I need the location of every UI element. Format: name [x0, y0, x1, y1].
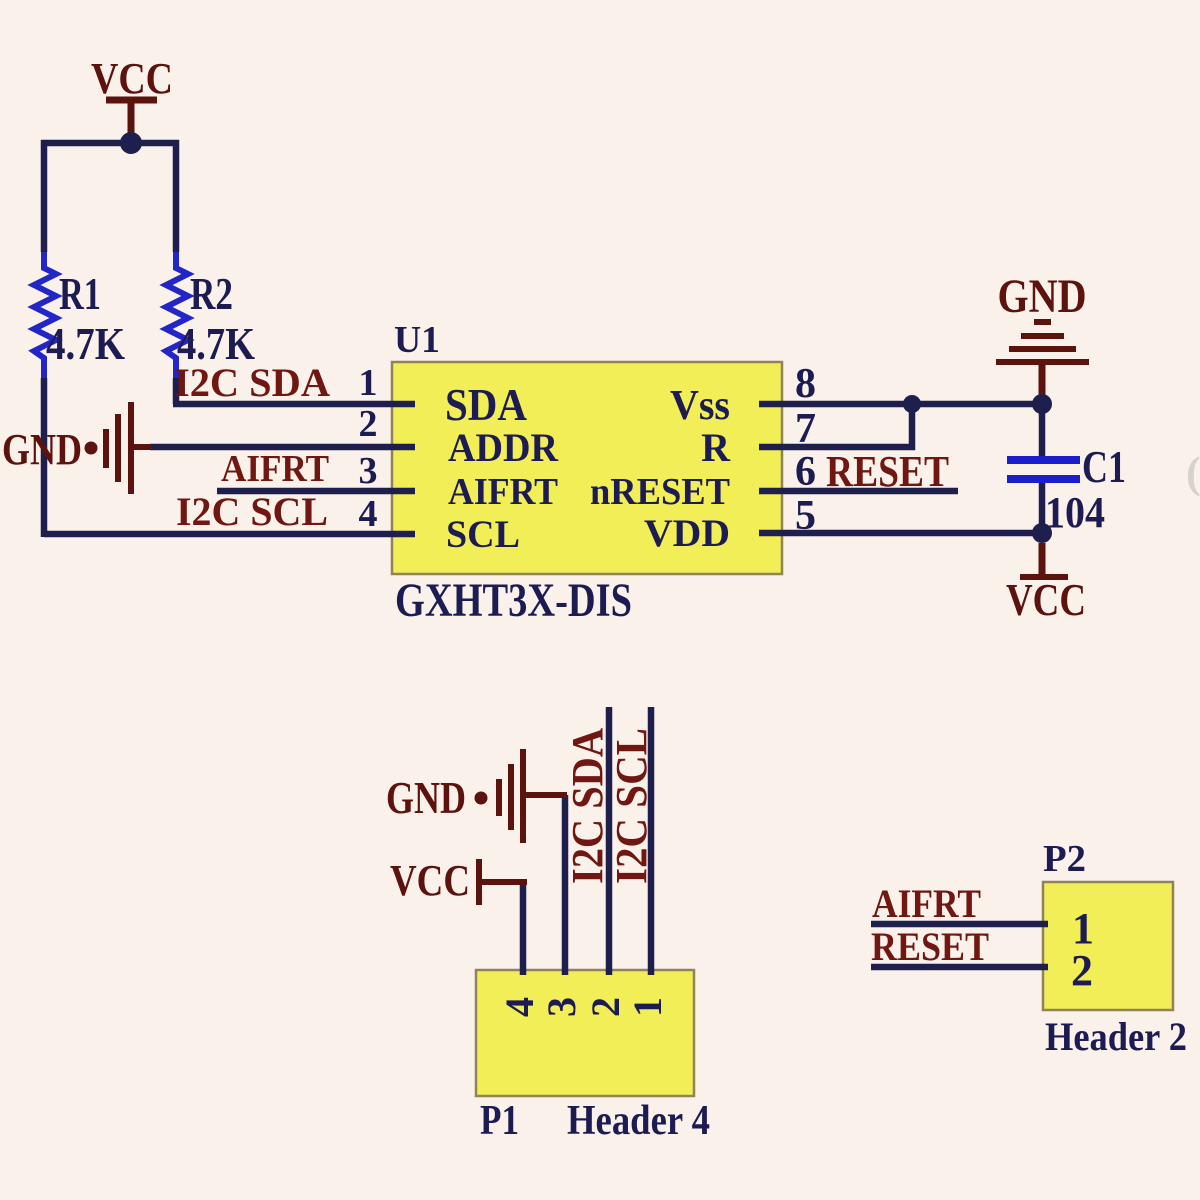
ground GND P1 dot — [475, 792, 488, 805]
IC U1 body — [392, 362, 782, 574]
svg-text:5: 5 — [795, 493, 816, 539]
svg-text:3: 3 — [359, 450, 378, 492]
wire C1 top lead — [1039, 404, 1046, 456]
ground GND left dot — [85, 442, 98, 455]
svg-text:U1: U1 — [394, 319, 440, 361]
power VCC symbol at P1 — [476, 859, 482, 905]
wire GND to pin 2 ADDR — [150, 444, 415, 451]
wire RESET to P2 pin 2 — [871, 964, 1048, 971]
svg-text:VCC: VCC — [390, 856, 470, 905]
wire left vertical lower (R1 bottom lead to SCL net) — [41, 378, 48, 537]
svg-text:1: 1 — [359, 362, 378, 404]
wire R2 top lead — [173, 140, 180, 252]
svg-text:3: 3 — [539, 997, 584, 1017]
capacitor C1 plates — [1007, 460, 1080, 479]
wire P1 pin 4 vertical — [520, 882, 527, 975]
svg-text:VDD: VDD — [644, 512, 730, 555]
svg-text:I2C SCL: I2C SCL — [176, 489, 328, 534]
wire VCC bus top horizontal — [41, 140, 179, 147]
svg-text:4.7K: 4.7K — [46, 318, 125, 369]
node VCC bus junction — [120, 132, 142, 154]
svg-text:C1: C1 — [1082, 441, 1126, 492]
svg-text:4: 4 — [359, 493, 378, 535]
svg-text:GND: GND — [386, 772, 466, 823]
header P1 body — [476, 970, 694, 1096]
svg-text:VCC: VCC — [1006, 574, 1086, 625]
wire R2 bottom lead — [173, 378, 180, 404]
svg-text:R2: R2 — [190, 268, 233, 319]
svg-text:4.7K: 4.7K — [177, 318, 255, 369]
svg-text:7: 7 — [795, 406, 816, 452]
svg-text:ADDR: ADDR — [448, 425, 559, 470]
svg-text:104: 104 — [1045, 488, 1105, 537]
svg-text:R1: R1 — [59, 268, 101, 319]
ground GND right symbol — [1034, 319, 1051, 325]
wire P1 pin 2 vertical (I2C SDA) — [606, 707, 613, 975]
wire I2C SDA horizontal to pin 1 — [173, 401, 415, 408]
wire P1 pin 1 vertical (I2C SCL) — [648, 707, 655, 975]
svg-text:GND: GND — [998, 270, 1087, 323]
wire AIFRT to P2 pin 1 — [871, 921, 1048, 928]
node VDD/C1 junction — [1032, 523, 1052, 543]
wire pin 7 R up to Vss net — [759, 401, 912, 447]
power VCC bottom right symbol — [1039, 543, 1046, 577]
svg-text:RESET: RESET — [826, 447, 949, 496]
svg-text:nRESET: nRESET — [590, 471, 730, 513]
svg-text:AIFRT: AIFRT — [872, 881, 981, 926]
svg-text:Vss: Vss — [670, 383, 730, 429]
svg-text:SDA: SDA — [445, 379, 527, 430]
wire pin 5 VDD to VCC node — [759, 530, 1042, 537]
svg-text:SCL: SCL — [446, 513, 520, 556]
wire P1 pin 3 vertical — [562, 795, 569, 975]
svg-text:2: 2 — [1071, 946, 1093, 995]
wire AIFRT to pin 3 — [217, 488, 415, 495]
node GND/C1 junction — [1032, 394, 1052, 414]
ground GND left symbol — [103, 429, 109, 468]
wire I2C SCL horizontal to pin 4 — [44, 531, 415, 538]
resistor R1 — [34, 252, 56, 378]
wire pin 6 nRESET stub — [759, 488, 958, 495]
svg-text:8: 8 — [795, 361, 816, 407]
svg-text:2: 2 — [583, 997, 628, 1017]
resistor R2 — [166, 252, 188, 378]
node Vss/R junction — [903, 395, 921, 413]
svg-text:Header 4: Header 4 — [567, 1098, 710, 1144]
power VCC top symbol — [106, 97, 157, 104]
svg-text:(: ( — [1186, 448, 1200, 497]
header P2 body — [1043, 882, 1173, 1010]
svg-text:VCC: VCC — [91, 54, 173, 103]
wire left vertical upper (R1 top lead) — [41, 140, 48, 252]
svg-text:P2: P2 — [1043, 838, 1086, 880]
wire pin 8 Vss to GND node — [759, 401, 1042, 408]
svg-text:2: 2 — [359, 403, 378, 445]
svg-text:Header 2: Header 2 — [1045, 1014, 1187, 1059]
svg-text:AIFRT: AIFRT — [448, 471, 558, 513]
svg-text:I2C SCL: I2C SCL — [607, 728, 656, 884]
svg-text:I2C SDA: I2C SDA — [563, 728, 612, 884]
svg-text:4: 4 — [497, 997, 542, 1017]
svg-text:6: 6 — [795, 449, 816, 495]
svg-text:R: R — [701, 425, 731, 470]
svg-text:1: 1 — [625, 997, 670, 1017]
svg-text:P1: P1 — [480, 1098, 519, 1144]
ground GND symbol at P1 — [496, 779, 502, 816]
svg-text:RESET: RESET — [871, 924, 989, 969]
svg-text:GXHT3X-DIS: GXHT3X-DIS — [395, 574, 632, 627]
wire C1 bottom lead — [1039, 483, 1046, 533]
svg-text:GND: GND — [2, 425, 82, 474]
svg-text:AIFRT: AIFRT — [221, 448, 329, 490]
